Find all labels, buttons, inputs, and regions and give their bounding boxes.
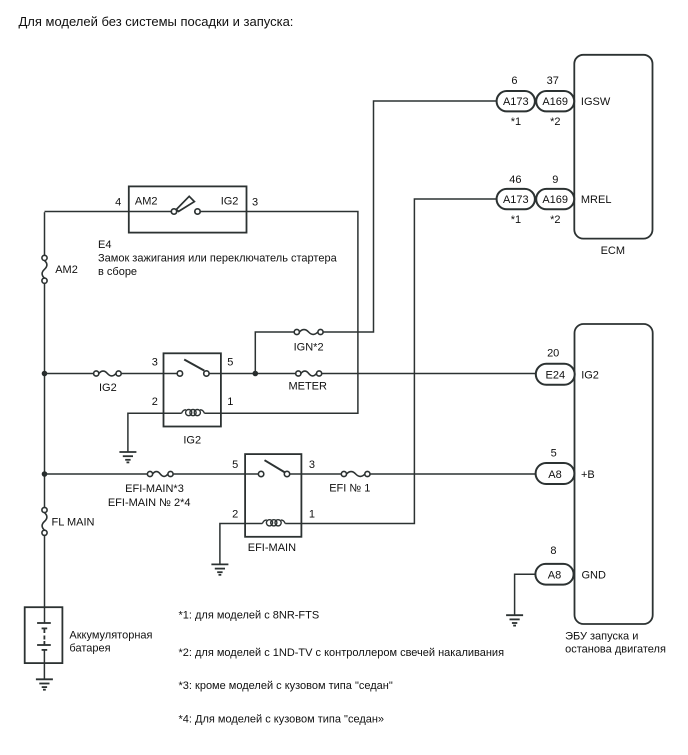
svg-text:A8: A8 (548, 469, 561, 481)
pin 46 (A173) (509, 174, 521, 186)
pin 8 (A8 GND) (550, 545, 556, 557)
wire: EFI-MAIN fuse to relay box (173, 473, 245, 475)
junction dot at IG2 fuse branch (42, 371, 48, 377)
title text (19, 14, 294, 29)
wire: IGN*2 fuse to ECM IGSW (A173) (323, 101, 497, 332)
svg-text:в сборе: в сборе (98, 266, 137, 278)
label AM2 (switch terminal) (135, 196, 158, 208)
svg-text:37: 37 (547, 75, 559, 87)
svg-text:A173: A173 (503, 194, 529, 206)
fuse AM2 (42, 255, 47, 283)
note *1 (IGSW row) (511, 116, 521, 128)
connector A169 (MREL) (536, 189, 574, 209)
pin 1 (IG2 relay) (227, 396, 233, 408)
label MREL (581, 194, 612, 206)
pin 1 (EFI-MAIN relay) (309, 509, 315, 521)
svg-text:A8: A8 (548, 570, 561, 582)
fuse IG2 (94, 371, 122, 376)
label ECM (601, 245, 625, 257)
pin 37 (A169) (547, 75, 559, 87)
pin 20 (E24) (547, 347, 559, 359)
label: battery line 2 (69, 643, 110, 655)
svg-text:EFI-MAIN*3: EFI-MAIN*3 (125, 483, 184, 495)
svg-text:46: 46 (509, 174, 521, 186)
pin 6 (A173) (511, 75, 517, 87)
svg-text:*2: *2 (550, 214, 560, 226)
svg-text:1: 1 (227, 396, 233, 408)
label: ignition switch description line 1 (98, 253, 338, 265)
fuse EFI No.1 (341, 471, 370, 476)
note *1 text (179, 610, 320, 622)
note *4 text (179, 713, 385, 725)
IG2 relay coil (164, 410, 221, 416)
pin 2 (IG2 relay) (152, 396, 158, 408)
svg-text:3: 3 (252, 197, 258, 209)
wire: battery branch to EFI-MAIN fuse (45, 473, 148, 475)
svg-text:AM2: AM2 (135, 196, 158, 208)
wire: switch pin3 to IG2 relay coil pin1 (221, 212, 358, 414)
ground (ECU GND) (506, 615, 523, 625)
ground (EFI-MAIN relay) (211, 564, 228, 574)
pin 4 (ignition switch) (115, 197, 121, 209)
label IG2 (fuse) (99, 382, 117, 394)
wire: branch up to IGN*2 fuse (255, 332, 294, 374)
svg-text:GND: GND (582, 570, 607, 582)
svg-text:4: 4 (115, 197, 121, 209)
pin 3 (IG2 relay) (152, 356, 158, 368)
svg-text:Для моделей без системы посадк: Для моделей без системы посадки и запуск… (19, 14, 294, 29)
wire: battery feed vertical (middle segment) (44, 283, 46, 507)
pin 5 (A8 +B) (551, 447, 557, 459)
svg-text:5: 5 (232, 459, 238, 471)
label: ignition switch description line 2 (98, 266, 137, 278)
svg-text:IGSW: IGSW (581, 96, 611, 108)
label +B (581, 469, 595, 481)
label: battery line 1 (69, 629, 152, 641)
svg-text:MREL: MREL (581, 194, 612, 206)
junction dot at IGN*2 branch (253, 371, 259, 377)
svg-text:8: 8 (550, 545, 556, 557)
svg-text:FL MAIN: FL MAIN (52, 516, 95, 528)
pin 5 (EFI-MAIN relay) (232, 459, 238, 471)
svg-text:*4: Для моделей с кузовом типа: *4: Для моделей с кузовом типа "седан» (179, 713, 385, 725)
label IGSW (581, 96, 611, 108)
svg-text:5: 5 (551, 447, 557, 459)
svg-text:EFI-MAIN: EFI-MAIN (248, 542, 296, 554)
relay EFI-MAIN box (245, 454, 301, 537)
svg-text:20: 20 (547, 347, 559, 359)
pin 3 (EFI-MAIN relay) (309, 459, 315, 471)
relay IG2 box (164, 353, 221, 426)
ground (IG2 relay) (119, 452, 136, 462)
wire: IG2 fuse to relay box (121, 373, 163, 375)
note *2 text (179, 647, 505, 659)
connector A8 (GND) (535, 564, 573, 585)
fusible link FL MAIN (42, 507, 47, 535)
wire: battery feed horizontal to ignition switch pin 4 (45, 211, 129, 213)
note *1 (MREL row) (511, 214, 521, 226)
svg-text:IG2: IG2 (99, 382, 117, 394)
pin 5 (IG2 relay) (227, 356, 233, 368)
svg-text:2: 2 (232, 509, 238, 521)
svg-text:останова двигателя: останова двигателя (565, 644, 666, 656)
wire: inside switch left (129, 211, 172, 213)
wire: A8 GND to ground (515, 574, 536, 615)
svg-text:IG2: IG2 (581, 370, 599, 382)
fuse METER (296, 371, 322, 376)
svg-text:AM2: AM2 (55, 264, 78, 276)
wire: inside switch right (200, 211, 246, 213)
battery cells (37, 623, 51, 650)
wire: battery feed vertical (bottom segment to battery) (44, 535, 46, 622)
label AM2 (fuse) (55, 264, 78, 276)
pin 9 (A169) (552, 174, 558, 186)
fuse EFI-MAIN (147, 471, 173, 476)
IG2 relay contact (164, 360, 221, 377)
wire: battery branch to IG2 fuse (45, 373, 94, 375)
connector A173 (MREL) (497, 189, 535, 209)
note *3 text (179, 680, 393, 692)
label: ECU name line 2 (565, 644, 666, 656)
ignition switch contact (171, 196, 200, 214)
label FL MAIN (52, 516, 95, 528)
wire: EFI-MAIN relay pin2 to ground (220, 524, 245, 565)
svg-text:*2: для моделей с 1ND-TV с кон: *2: для моделей с 1ND-TV с контроллером … (179, 647, 505, 659)
note *2 (IGSW row) (550, 116, 560, 128)
svg-text:Замок зажигания или переключат: Замок зажигания или переключатель старте… (98, 253, 338, 265)
svg-text:3: 3 (152, 356, 158, 368)
svg-text:*3: кроме моделей с кузовом ти: *3: кроме моделей с кузовом типа "седан" (179, 680, 393, 692)
svg-text:3: 3 (309, 459, 315, 471)
svg-text:*1: *1 (511, 214, 521, 226)
label EFI-MAIN (relay) (248, 542, 296, 554)
wire: IG2 relay pin5 to E24 (METER row) (221, 373, 296, 375)
wire: battery negative to ground (43, 650, 45, 679)
svg-text:5: 5 (227, 356, 233, 368)
connector A8 (+B) (536, 463, 575, 484)
fuse IGN*2 (294, 329, 323, 334)
label METER (288, 380, 327, 392)
ECM block (574, 55, 652, 239)
label GND (582, 570, 607, 582)
ground (battery) (36, 679, 53, 689)
svg-text:*2: *2 (550, 116, 560, 128)
svg-text:METER: METER (288, 380, 327, 392)
wire: battery feed vertical (top segment) (44, 212, 46, 255)
svg-text:батарея: батарея (69, 643, 110, 655)
label EFI No 1 (329, 483, 370, 495)
svg-text:*1: *1 (511, 116, 521, 128)
connector A173 (IGSW) (497, 91, 535, 111)
engine start/stop ECU block (575, 324, 653, 624)
EFI-MAIN relay contact (245, 460, 301, 476)
pin 2 (EFI-MAIN relay) (232, 509, 238, 521)
wire: EFI No.1 fuse to A8 +B connector (370, 473, 536, 475)
wire: IG2 relay pin2 to ground (128, 413, 164, 451)
label EFI-MAIN No 2*4 (108, 497, 191, 509)
svg-text:A173: A173 (503, 96, 529, 108)
label IG2 (ECU) (581, 370, 599, 382)
ignition switch E4 box (129, 186, 247, 232)
pin 3 (ignition switch) (252, 197, 258, 209)
label IG2 (relay) (183, 435, 201, 447)
svg-text:EFI № 1: EFI № 1 (329, 483, 370, 495)
svg-text:ECM: ECM (601, 245, 625, 257)
svg-text:EFI-MAIN № 2*4: EFI-MAIN № 2*4 (108, 497, 191, 509)
svg-text:E24: E24 (546, 370, 566, 382)
wire: EFI-MAIN relay pin1 to ECM MREL (A173) (301, 199, 496, 524)
svg-text:E4: E4 (98, 239, 111, 251)
label: ECU name line 1 (565, 631, 638, 643)
svg-text:*1: для моделей с 8NR-FTS: *1: для моделей с 8NR-FTS (179, 610, 320, 622)
wire: METER fuse to E24 connector (322, 373, 536, 375)
svg-text:9: 9 (552, 174, 558, 186)
svg-text:6: 6 (511, 75, 517, 87)
connector E24 (IG2) (536, 364, 575, 385)
svg-text:A169: A169 (542, 194, 568, 206)
label E4 (98, 239, 111, 251)
svg-text:2: 2 (152, 396, 158, 408)
label EFI-MAIN*3 (125, 483, 184, 495)
label IG2 (switch terminal) (221, 196, 239, 208)
note *2 (MREL row) (550, 214, 560, 226)
battery box (25, 607, 63, 663)
svg-text:ЭБУ запуска и: ЭБУ запуска и (565, 631, 638, 643)
svg-text:Аккумуляторная: Аккумуляторная (69, 629, 152, 641)
junction dot at EFI-MAIN branch (42, 471, 48, 477)
EFI-MAIN relay coil (245, 520, 301, 526)
svg-text:IG2: IG2 (183, 435, 201, 447)
svg-text:IG2: IG2 (221, 196, 239, 208)
svg-text:+B: +B (581, 469, 595, 481)
wire: EFI-MAIN relay pin3 to EFI No.1 fuse (301, 473, 341, 475)
label IGN*2 (294, 341, 324, 353)
svg-text:IGN*2: IGN*2 (294, 341, 324, 353)
svg-text:A169: A169 (542, 96, 568, 108)
connector A169 (IGSW) (536, 91, 574, 111)
svg-text:1: 1 (309, 509, 315, 521)
